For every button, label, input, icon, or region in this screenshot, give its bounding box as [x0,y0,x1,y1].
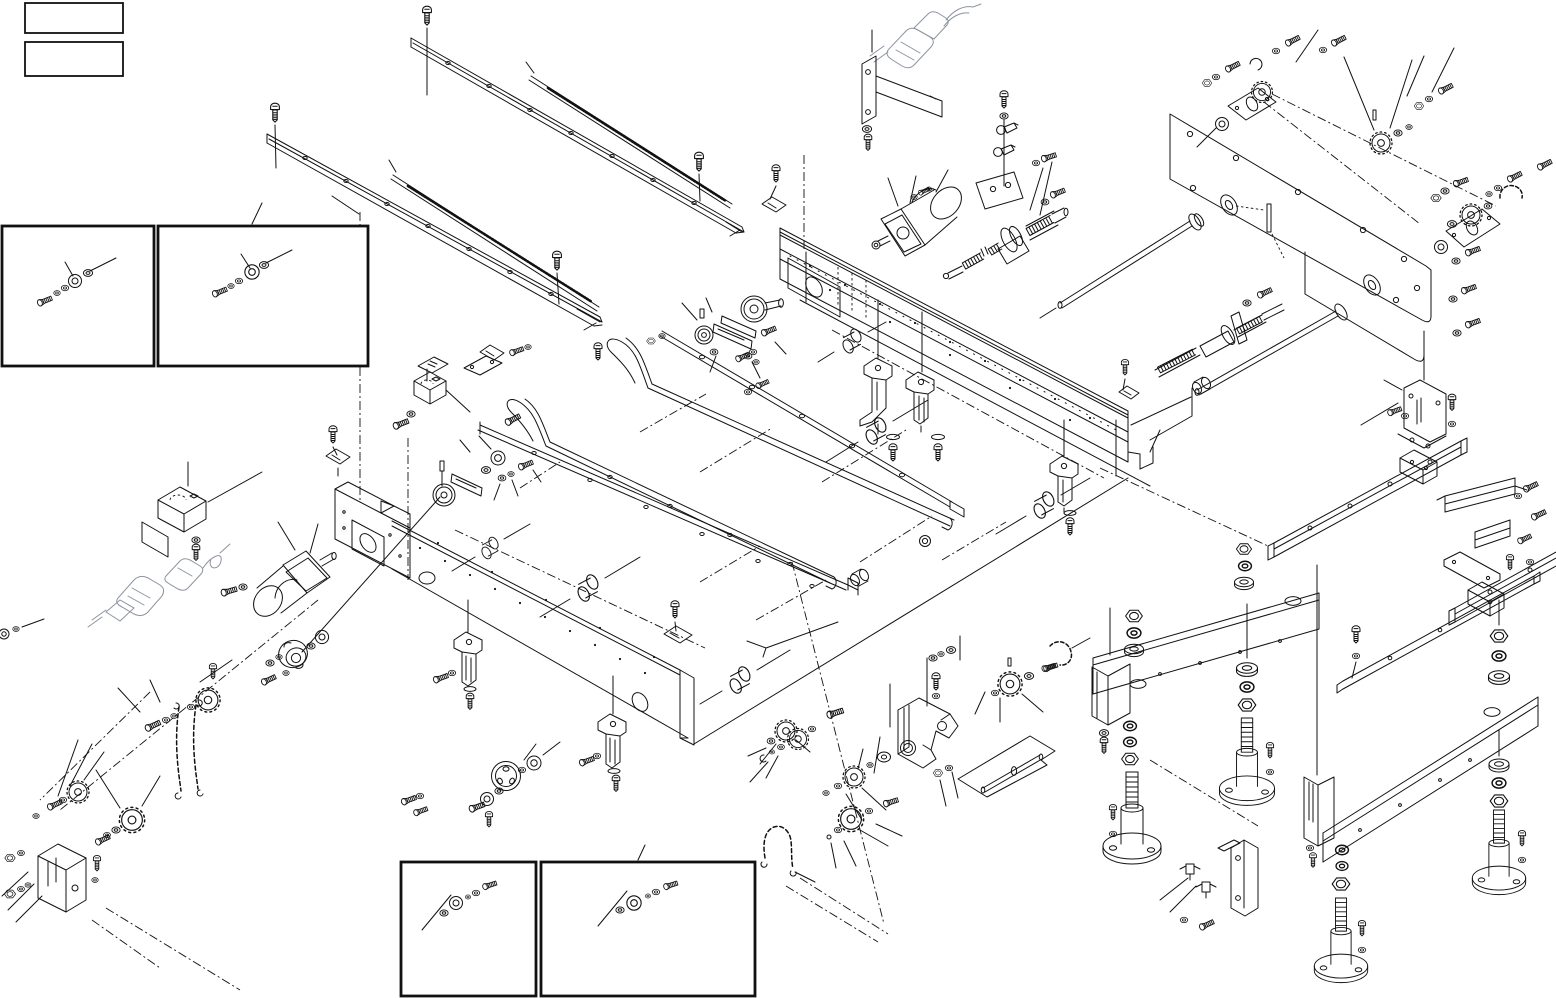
T clamp left [762,197,786,212]
rail 1 carriage block [1400,450,1437,484]
sprocket Se [843,766,865,788]
rack strip R2b [389,160,599,311]
support bracket S4 [1050,456,1078,506]
rollers on deck [841,327,863,355]
screw mid rail R2 [553,251,562,270]
short rail above bar B [1337,572,1540,693]
wire line from screw [699,174,700,201]
washer left of bracket [878,752,891,762]
vertical dash-dot leader at beam left [803,155,805,250]
title box 1 [25,3,123,33]
stud bolt left [826,707,844,719]
nuts far left [5,854,15,861]
leader from top of box D [638,845,645,860]
wire line [557,273,559,304]
bolt + washer right of fittings [1041,152,1057,163]
bracket above rail1 [1361,346,1446,448]
bolts on panel right edge [1453,176,1469,187]
support bracket S1 [598,714,626,773]
panel lower corner lines [1150,388,1192,452]
title box 2 [25,42,123,76]
detail box B frame [158,226,368,366]
leader [1109,608,1111,655]
vertical dash-dots left [360,212,408,580]
pin + dashed leaders [1236,206,1284,258]
stack 2 below bar A [1124,721,1137,731]
deck front beam [392,521,694,745]
washers + bolt left of coupling [266,660,274,666]
fitting washer [1000,113,1008,119]
bolt at rail C end [504,413,521,426]
sprocket Sg [788,729,809,750]
plain shaft S1 with flange [1040,212,1206,318]
floating bearing far left [0,619,44,639]
support bracket S3 [906,372,934,424]
roller right low [849,568,871,587]
screw mid rail R1 [695,152,704,171]
axis dash-dot [40,600,318,810]
angle clip on deck [664,626,692,643]
sprocket Sf [838,806,863,831]
bolts far right top [1506,170,1522,183]
motor M2 [872,170,968,256]
corner bolts left of idler [401,794,417,805]
hardware above bracket [929,655,937,661]
bridge bracket 2 [1475,520,1510,548]
T clamp left deck [326,449,350,464]
flanged nut on deck [920,536,931,547]
plate above rail2 [1444,552,1500,588]
detail box D content [598,880,678,926]
idler pulley cluster bottom-left of deck [468,742,560,827]
below bar B right: stack + jack J4 [1498,730,1500,756]
detail box B content: bolt, washers, bearing [212,250,292,298]
roller near panel [1191,376,1213,395]
detail box A frame [2,226,154,366]
leader to detail box B [252,203,262,224]
chain hook piece right [1500,186,1522,198]
sprocket Sa [196,688,220,712]
sprocket G3 + plate [1435,203,1501,253]
detail box A content: bolt, washers, bearing [37,258,116,307]
ball screw BS1 [943,162,1068,279]
guide rail A with hook [607,338,954,530]
support bracket S0 [454,632,482,691]
chain loop [174,700,203,799]
bolt row mid [144,719,161,732]
motor mount plate [976,172,1023,209]
tensioner T1: pulley + slotted link [433,436,541,506]
screws above rail E [594,343,602,360]
L bracket [38,844,86,912]
c-clip [1250,58,1262,70]
sprocket G1 + plate [1197,82,1276,147]
linear rail 2 [1449,552,1556,625]
guide rail B with hook [507,399,836,589]
screw above T clamp right [1121,359,1128,374]
gear mount bracket [898,698,958,768]
view boundary [958,736,1055,797]
view boundary left segments [747,622,890,727]
dash leaders to bottom center [92,908,240,990]
second bolt pair near BS1 [1041,199,1049,205]
jack J2 column [1246,604,1248,658]
linear rail 1 [1268,438,1467,560]
main beam [780,228,1191,486]
J-chain hook bottom [761,826,796,876]
T clamp right [1119,386,1139,399]
pulley on beam [741,296,783,322]
long dash leader [792,562,884,924]
rack strip R1b [526,62,732,208]
dash-dot construction right [1264,94,1496,224]
screw above rail R2 [271,103,280,122]
sprocket Sb [67,781,89,803]
cable assembly left (gray) [88,544,230,627]
nut stack left of rail1 [1236,544,1251,554]
bolts above G1 [1224,60,1240,73]
rail R2 [267,134,602,330]
nut+washer below bracket [933,770,943,777]
rivet dots on front beam [419,542,655,674]
deck right edge [694,478,1128,744]
bridge bracket [1437,478,1527,512]
hole rail E [660,331,964,517]
fold dash-dot lines on deck [520,394,1006,620]
corner leader lines [2,872,42,922]
long dash leader [1100,468,1268,546]
cable assembly top (gray) [870,4,981,68]
tensioner T2 on beam [682,298,786,378]
flanged shaft F2 [1195,302,1350,395]
elbow fitting 2 [994,145,1015,156]
elbow fitting 1 [997,123,1018,134]
base bar B [1323,697,1538,862]
small sprocket right of deck end [775,720,797,742]
deck left wall [335,482,410,578]
sprocket Sc [119,807,144,832]
wire line [275,125,276,168]
cable bracket [862,56,942,124]
sprocket G2 [1344,57,1412,154]
bolt+washer left of motor [220,586,237,597]
detail box D frame [541,862,755,996]
bar B support block [1304,777,1334,846]
angled plate above cluster [1218,840,1240,851]
stack above bar B right [1498,600,1500,625]
bottom small bracket cluster [1231,840,1258,916]
small washer+screw below bar A [1099,730,1108,737]
leader [871,30,873,52]
screw above rail R1 [423,6,432,25]
screw above T clamp [772,165,780,182]
wire line from screw R1 [426,28,428,95]
chain hook piece [1050,642,1071,665]
cable bracket left [142,462,262,557]
fitting screw [1000,91,1008,108]
small plates above rail bracket [418,356,502,381]
plate on beam face [788,258,840,317]
rivet dots on main beam face [809,265,1091,421]
detail box C frame [401,862,536,996]
shaft in boundary [981,754,1043,793]
stack above bar A [1126,610,1143,622]
sprocket Sd [998,672,1022,696]
detail box C content [422,880,497,930]
rail C on deck [478,422,858,595]
rail R1 [411,38,744,236]
side panel [1170,114,1431,361]
rail bracket upper [414,372,446,404]
roller axis dash-dots [455,330,1104,648]
jack J3 column [1336,845,1349,855]
base bar A [1093,593,1319,694]
dotted holes lines on beam [838,267,866,318]
bar A pedestal [1092,664,1130,725]
leader lines top right [1296,30,1454,96]
clamp block left of rail E [480,345,504,360]
coupling flange [275,497,440,675]
washer+screw below bracket [862,126,871,133]
ball screw BS2 [1155,287,1284,377]
rail 2 carriage block [1468,582,1504,616]
support bracket S2 [860,358,892,426]
motor M1 [248,522,337,622]
jack J1 [1103,772,1161,864]
